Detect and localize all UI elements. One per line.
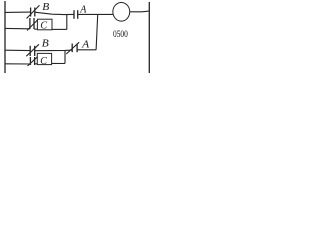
svg-text:C: C: [40, 56, 47, 67]
contact C2 NC slash: [28, 57, 38, 66]
contact A1 bar 2: [77, 10, 79, 19]
wire C2 branch vertical up: [64, 50, 66, 63]
contact C2 bar 1: [29, 57, 31, 65]
wire C1 branch vertical up: [66, 15, 68, 30]
contact A2 bar 1: [71, 44, 73, 53]
contact B2 NC slash: [26, 44, 39, 56]
wire rung1: contact B to contact A: [35, 12, 74, 14]
right power rail: [148, 2, 150, 73]
wire rung2: rail to contact B2: [5, 49, 30, 51]
contact C1 bar 2: [33, 18, 35, 29]
wire rung1: rail to contact B: [5, 11, 31, 13]
wire C2 contact to box: [35, 63, 38, 65]
wire branch C2 from rail: [5, 63, 30, 65]
contact C2 bar 2: [34, 57, 36, 65]
wire rung1: contact A to coil: [78, 13, 113, 15]
wire coil to right rail: [130, 10, 149, 13]
wire C1 contact to box: [34, 28, 37, 30]
svg-text:A: A: [81, 39, 90, 50]
contact B1 NC slash: [27, 5, 40, 18]
svg-text:B: B: [42, 38, 49, 49]
contact A2 bar 2: [76, 44, 78, 53]
svg-text:0500: 0500: [113, 29, 128, 40]
wire rung2: contact A2 to junction: [77, 49, 96, 51]
contact C1 bar 1: [29, 18, 31, 29]
contact A1 bar 1: [73, 10, 75, 19]
svg-text:B: B: [42, 2, 49, 13]
label box C2: [37, 53, 51, 64]
wire rung2: contact B2 to contact A2: [35, 49, 72, 52]
junction vertical rung2 to rung1: [96, 15, 98, 50]
contact B1 bar 2: [34, 8, 36, 17]
contact A2 NC slash: [66, 42, 79, 54]
wire branch C1 from rail: [5, 27, 30, 29]
svg-text:A: A: [79, 4, 87, 15]
contact C1 NC slash: [27, 20, 38, 31]
label box C1: [37, 19, 52, 30]
wire C2 box to corner: [52, 62, 65, 64]
left power rail: [4, 1, 6, 73]
contact B1 bar 1: [30, 8, 32, 17]
contact B2 bar 2: [34, 46, 36, 56]
coil 0500 circle: [113, 2, 130, 21]
contact B2 bar 1: [29, 46, 31, 56]
svg-text:C: C: [40, 21, 47, 32]
wire C1 box to corner: [52, 28, 67, 30]
